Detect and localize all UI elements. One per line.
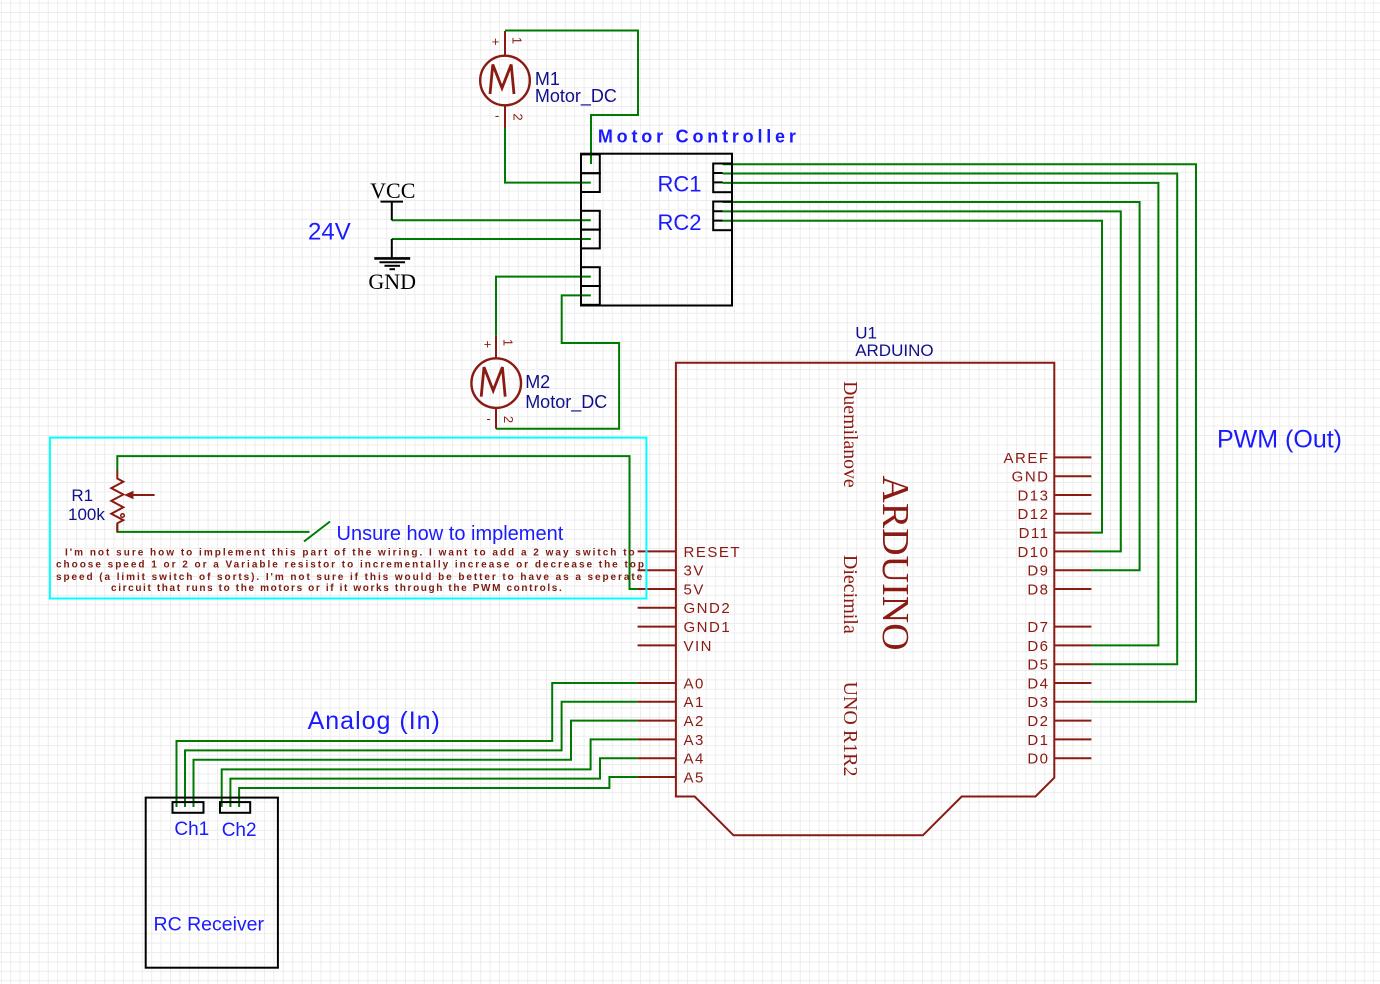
svg-text:speed (a limit switch of sorts: speed (a limit switch of sorts). I'm not… (56, 572, 644, 583)
svg-text:D4: D4 (1027, 675, 1049, 692)
svg-text:+: + (484, 337, 492, 352)
svg-text:AREF: AREF (1003, 450, 1049, 467)
svg-text:Analog (In): Analog (In) (308, 707, 441, 735)
svg-text:RC Receiver: RC Receiver (154, 914, 265, 936)
svg-text:ARDUINO: ARDUINO (855, 341, 933, 360)
svg-text:D13: D13 (1017, 487, 1049, 504)
svg-text:A1: A1 (684, 694, 705, 711)
svg-text:A0: A0 (684, 675, 705, 692)
svg-text:D9: D9 (1027, 563, 1049, 580)
svg-text:UNO R1R2: UNO R1R2 (839, 681, 861, 776)
svg-text:I'm not sure how to implement: I'm not sure how to implement this part … (65, 548, 637, 559)
svg-text:Duemilanove: Duemilanove (839, 381, 861, 488)
svg-text:-: - (486, 411, 490, 426)
svg-text:D5: D5 (1027, 657, 1049, 674)
svg-text:choose speed 1 or 2 or a Varia: choose speed 1 or 2 or a Variable resist… (56, 560, 646, 571)
svg-text:1: 1 (510, 37, 525, 44)
svg-text:GND1: GND1 (684, 619, 732, 636)
svg-text:A2: A2 (684, 713, 705, 730)
svg-text:5V: 5V (684, 581, 705, 598)
svg-text:+: + (492, 34, 500, 49)
svg-text:Motor Controller: Motor Controller (598, 126, 800, 146)
svg-text:D3: D3 (1027, 694, 1049, 711)
svg-text:A3: A3 (684, 732, 705, 749)
svg-text:RESET: RESET (684, 544, 742, 561)
svg-text:GND: GND (368, 269, 416, 294)
svg-text:Motor_DC: Motor_DC (525, 392, 607, 413)
svg-text:U1: U1 (855, 324, 877, 343)
svg-text:circuit that runs to the motor: circuit that runs to the motors or if it… (111, 583, 563, 594)
svg-text:A4: A4 (684, 751, 705, 768)
svg-text:Motor_DC: Motor_DC (535, 86, 617, 107)
svg-text:-: - (495, 108, 499, 123)
svg-text:D12: D12 (1017, 506, 1049, 523)
svg-text:100k: 100k (68, 505, 105, 524)
svg-text:RC2: RC2 (658, 210, 702, 235)
svg-text:D1: D1 (1027, 732, 1049, 749)
svg-text:VIN: VIN (684, 638, 714, 655)
svg-text:24V: 24V (308, 219, 351, 246)
svg-text:A5: A5 (684, 769, 705, 786)
svg-text:D10: D10 (1017, 544, 1049, 561)
svg-text:RC1: RC1 (658, 172, 702, 197)
svg-text:Ch1: Ch1 (174, 819, 209, 840)
svg-text:PWM (Out): PWM (Out) (1217, 425, 1342, 453)
svg-text:Unsure how to implement: Unsure how to implement (337, 523, 564, 545)
svg-text:ARDUINO: ARDUINO (874, 475, 916, 650)
svg-text:1: 1 (501, 339, 516, 346)
svg-text:M2: M2 (525, 372, 550, 392)
svg-text:D7: D7 (1027, 619, 1049, 636)
svg-text:2: 2 (511, 113, 526, 120)
svg-text:D0: D0 (1027, 751, 1049, 768)
svg-text:Ch2: Ch2 (222, 820, 257, 841)
svg-text:R1: R1 (71, 486, 93, 505)
svg-text:VCC: VCC (370, 178, 415, 203)
svg-text:2: 2 (501, 416, 516, 423)
svg-text:D8: D8 (1027, 581, 1049, 598)
svg-text:GND: GND (1012, 469, 1050, 486)
svg-text:D11: D11 (1019, 525, 1050, 542)
svg-text:D6: D6 (1027, 638, 1049, 655)
svg-text:3V: 3V (684, 563, 705, 580)
svg-text:Diecimila: Diecimila (839, 555, 861, 634)
svg-text:D2: D2 (1027, 713, 1049, 730)
svg-text:GND2: GND2 (684, 600, 732, 617)
